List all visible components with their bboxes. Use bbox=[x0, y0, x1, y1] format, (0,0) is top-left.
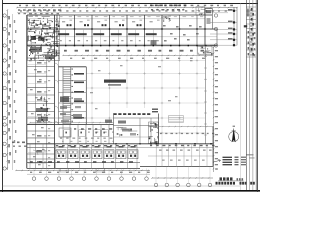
bottom right dim text y133 bbox=[160, 133, 214, 134]
right dimension text marks bbox=[215, 50, 218, 165]
rooms band labels bbox=[74, 128, 112, 130]
entrance steps below bottom wing bbox=[60, 169, 105, 172]
legend upper-right dashes bbox=[247, 154, 254, 155]
courtyard dimension line y55 bbox=[62, 55, 213, 56]
toilet stall row bbox=[56, 146, 138, 159]
sheet bottom inner line bbox=[3, 185, 241, 187]
right top dim stubs bbox=[210, 10, 237, 47]
annex stair treads bbox=[63, 69, 72, 124]
bottom wing mid line right bbox=[148, 155, 213, 157]
bottom right dim line y126.5 bbox=[149, 126, 213, 127]
right top dim text bbox=[228, 9, 233, 39]
bottom wing partitions left bbox=[30, 144, 137, 169]
top second dimension line bbox=[17, 12, 228, 14]
rooms band cell boxes bbox=[64, 130, 108, 137]
right dim end tick text bbox=[215, 168, 218, 169]
left wing corridor east line bbox=[58, 46, 60, 144]
title block strip verticals bbox=[246, 0, 256, 190]
left wing door arcs bbox=[55, 63, 59, 154]
annex west line bbox=[58, 67, 60, 144]
title block stamp mark bbox=[244, 25, 247, 27]
top wing inner top line bbox=[27, 18, 205, 20]
bottom wing bottom wall right bbox=[140, 165, 213, 167]
bottom-left corner text cluster bbox=[12, 142, 25, 144]
top dimension text lower row bbox=[20, 10, 227, 12]
courtyard dim text row bbox=[70, 58, 205, 59]
top wing column dots corridor bbox=[56, 28, 205, 29]
bottom axis bubbles left bbox=[32, 168, 148, 180]
courtyard light grid bbox=[55, 45, 206, 144]
bottom wing right room marks bbox=[159, 150, 212, 161]
title block cell dividers bbox=[246, 7, 256, 57]
left wing stair chain bbox=[40, 96, 48, 122]
sheet top border bbox=[3, 3, 259, 5]
bottom block top dash row bbox=[114, 113, 151, 115]
top wing bottom wall bbox=[27, 45, 217, 47]
sheet bottom border thick bbox=[0, 190, 260, 192]
courtyard right walkway line bbox=[205, 46, 207, 144]
top wing lower inner line bbox=[27, 43, 217, 45]
sheet right border bbox=[257, 0, 259, 192]
right top double dimension lines bbox=[233, 7, 235, 45]
bottom block stair cluster bbox=[149, 122, 159, 144]
bottom wing bottom wall left bbox=[27, 162, 140, 164]
left wing west wall bbox=[26, 15, 28, 168]
title block text marks bbox=[250, 8, 254, 56]
annex room blobs bbox=[60, 97, 69, 103]
top wing corridor wall bbox=[27, 28, 217, 30]
top wing upper paired blobs bbox=[67, 24, 142, 26]
top wing exterior window dashes bbox=[60, 16, 203, 17]
drawing title line 2 bbox=[216, 182, 255, 185]
top wing window text row bbox=[60, 40, 159, 41]
bottom axis bubbles right bbox=[154, 166, 212, 186]
bottom wing left room door arc bbox=[33, 150, 38, 155]
legend leader arrow bbox=[214, 160, 221, 162]
bottom wing top wall bbox=[27, 143, 213, 145]
bottom block interior texture bbox=[116, 127, 138, 137]
top wing hall corner blob bbox=[151, 40, 157, 45]
drawing title line 1 bbox=[218, 177, 244, 181]
bottom dim line right bbox=[151, 177, 213, 178]
north arrow circle bbox=[229, 132, 239, 142]
right end courtyard stair blocklet bbox=[198, 46, 213, 55]
bottom wing column dots bbox=[156, 143, 212, 144]
bottom block white mask bbox=[114, 108, 159, 144]
left dimension line inner bbox=[11, 14, 13, 170]
top wing outer top wall bbox=[27, 14, 212, 16]
top-left stair core cluster bbox=[28, 15, 60, 61]
right dimension line ticked bbox=[213, 46, 215, 172]
rooms band top wall bbox=[27, 124, 116, 126]
legend rows bbox=[223, 157, 247, 166]
top wing right hall scattered fixtures bbox=[163, 25, 202, 42]
sheet left border bbox=[2, 0, 4, 192]
top dimension text upper row bbox=[19, 5, 233, 7]
annex stair west wall bbox=[62, 67, 64, 125]
courtyard scattered marks bbox=[90, 60, 193, 109]
bottom dim line left bbox=[15, 170, 150, 171]
bottom wing upper inner line bbox=[27, 147, 213, 149]
bottom block walls bbox=[114, 117, 159, 119]
left wing east wall bbox=[54, 15, 56, 168]
left axis bubbles bbox=[3, 14, 6, 170]
annex stair east wall bbox=[70, 67, 72, 125]
bottom wing partitions right bbox=[156, 144, 207, 167]
title block extra text bbox=[248, 31, 256, 56]
left wing inner wall 1 bbox=[35, 46, 37, 169]
left dimension text marks bbox=[8, 16, 11, 163]
room label row under top wing bbox=[64, 50, 204, 52]
courtyard walkway ticks bbox=[204, 56, 207, 135]
sheet right inner boundary bbox=[240, 4, 242, 191]
top wing column dots bottom bbox=[56, 45, 206, 46]
top wing upper room text bbox=[62, 20, 160, 23]
top wing right end rooms bbox=[204, 9, 206, 46]
top wing mid lower line bbox=[27, 36, 217, 38]
bottom block labels bbox=[118, 121, 126, 124]
top-right dense dim cluster bbox=[150, 5, 186, 7]
rooms band white mask bbox=[55, 125, 116, 144]
left wing inner wall 2 bbox=[46, 58, 48, 168]
left wing room marks bbox=[28, 60, 50, 166]
bottom wing window dashes left bbox=[30, 161, 133, 163]
rooms band inner room box bbox=[59, 128, 71, 137]
bottom block bottom dots bbox=[115, 143, 158, 144]
rooms band upper light line bbox=[27, 117, 87, 119]
rooms band dim ticks bbox=[29, 122, 116, 123]
annex top wall bbox=[59, 66, 87, 68]
rooms band partitions bbox=[63, 125, 109, 144]
top wing right stair tower bbox=[196, 7, 205, 16]
right axis bubbles bbox=[214, 14, 217, 47]
north arrow top tick bbox=[232, 130, 236, 132]
left dimension extra text column bbox=[14, 20, 17, 163]
courtyard label text bbox=[104, 80, 126, 83]
top-left dense dim cluster bbox=[18, 9, 61, 11]
bottom block upper arrows bbox=[152, 109, 158, 113]
bottom dim text left bbox=[30, 172, 150, 173]
top wing right hall stair hatch bbox=[161, 16, 171, 22]
top dimension line bbox=[16, 7, 238, 9]
bottom wing top window dashes bbox=[56, 145, 137, 146]
top wing classroom partitions bbox=[57, 15, 197, 46]
north arrow needle bbox=[232, 128, 236, 143]
left wing floor dividers bbox=[27, 58, 55, 163]
top wing corridor-side door dashes bbox=[58, 33, 157, 35]
annex stair arrows bbox=[74, 73, 84, 119]
annex white mask bbox=[59, 67, 86, 144]
annex east wall bbox=[85, 67, 87, 144]
bottom wing right wall bbox=[212, 127, 214, 167]
bottom dim line left 2 bbox=[27, 173, 150, 175]
annex floor dividers bbox=[59, 81, 87, 125]
bottom block upper planter bbox=[169, 116, 184, 123]
left dimension line outer bbox=[7, 9, 9, 170]
rooms band fixture row bbox=[60, 138, 112, 139]
